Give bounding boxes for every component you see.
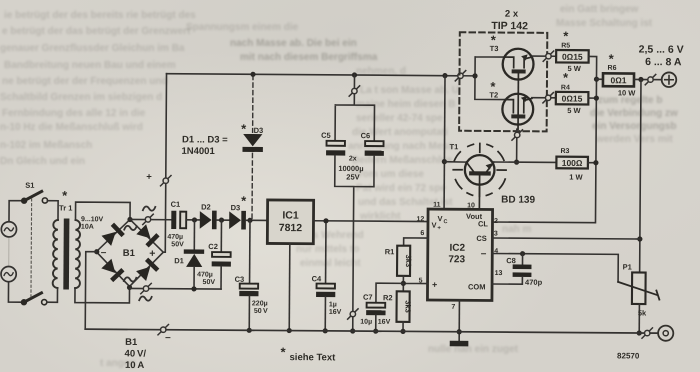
dashed module box 2x TIP142: [459, 32, 547, 131]
wire: secondary top to bridge ac1: [75, 202, 130, 220]
label diode legend text: [181, 134, 228, 157]
svg-text:+: +: [432, 280, 437, 290]
wire: pin3 CS to output column: [492, 238, 639, 239]
svg-text:C4: C4: [312, 274, 322, 283]
resistor R1: [397, 246, 413, 276]
svg-text:–: –: [101, 247, 107, 258]
ac tilde inside bridge bottom: [124, 277, 136, 281]
svg-text:2 x: 2 x: [505, 9, 519, 20]
svg-text:S1: S1: [25, 181, 34, 190]
node D2/C2/D3: [219, 217, 224, 222]
resistor R4: [556, 92, 589, 105]
wire: bridge plus up to raw+ rail: [163, 74, 166, 253]
svg-text:B1: B1: [125, 337, 138, 348]
terminal plus output: [662, 72, 677, 87]
connector at dashed box entry: [455, 71, 465, 81]
ac tilde below ac2 connector: [139, 296, 151, 300]
svg-text:T1: T1: [449, 142, 458, 151]
bleed-through text texture: [4, 10, 196, 21]
ac tilde above ac1 connector: [143, 206, 155, 210]
svg-text:3: 3: [494, 231, 498, 238]
wire: R2 to 0V rail: [402, 322, 404, 331]
svg-text:10 A: 10 A: [125, 360, 145, 371]
wire: switch to transformer primary: [47, 201, 58, 303]
transformer Tr1 secondary winding: [75, 220, 80, 288]
svg-text:CL: CL: [478, 219, 488, 228]
resistor R3: [556, 157, 588, 169]
svg-text:1 W: 1 W: [569, 173, 583, 182]
wire: C5C6 bottom to 0V rail: [334, 155, 374, 331]
AC source bottom: [1, 266, 16, 281]
svg-text:T2: T2: [489, 90, 498, 99]
node collector column: [472, 73, 477, 78]
legend diode D3 (optional): [242, 134, 263, 152]
capacitor C1: [171, 211, 186, 229]
capacitor C7: [366, 283, 403, 331]
svg-text:C: C: [443, 219, 447, 225]
svg-text:2x: 2x: [349, 155, 357, 162]
svg-text:+: +: [437, 226, 441, 232]
svg-text:100Ω: 100Ω: [562, 158, 583, 168]
wire: T1 collector riser / IC2 pin11: [443, 76, 446, 209]
diode D1: [184, 220, 205, 289]
svg-text:5 W: 5 W: [567, 106, 581, 115]
svg-text:11: 11: [433, 202, 441, 209]
connector on ac2 wire: [141, 283, 151, 293]
switch S1 pole b: [21, 293, 47, 306]
resistor R6 (shunt): [603, 73, 634, 86]
value C3 220u 50V: [252, 300, 268, 315]
svg-text:2: 2: [494, 218, 498, 225]
svg-text:2,5 ... 6 V: 2,5 ... 6 V: [639, 44, 684, 56]
transformer Tr1 core: [63, 219, 69, 290]
capacitor C2: [212, 220, 232, 289]
node T1 emitter / R3 / base tie: [514, 160, 519, 165]
svg-text:3k3: 3k3: [403, 300, 412, 313]
svg-text:R6: R6: [608, 65, 617, 72]
wire: R5 R4 R3 join column to CL: [492, 56, 596, 223]
svg-text:R4: R4: [561, 84, 570, 91]
transistor T3: [502, 49, 533, 94]
svg-text:R3: R3: [560, 148, 569, 155]
node R2 at rail: [400, 329, 405, 334]
capacitor C8: [492, 253, 532, 284]
wire: pin6 Vref to R1: [404, 238, 428, 246]
svg-text:3k3: 3k3: [404, 255, 413, 268]
svg-text:*: *: [563, 28, 569, 43]
wire: secondary bottom to bridge ac2: [75, 287, 130, 303]
ac tilde inside bridge top: [124, 226, 136, 230]
node pin4 / C8: [520, 251, 525, 256]
capacitor C6: [365, 141, 384, 156]
diode B1 arm upper-right: [136, 224, 160, 248]
svg-text:D3: D3: [231, 203, 241, 212]
wire: C1 to D2: [186, 219, 200, 221]
svg-text:50V: 50V: [171, 241, 184, 248]
diode B1 arm lower-left: [101, 258, 125, 282]
svg-text:T3: T3: [490, 44, 499, 53]
capacitor C5: [326, 141, 345, 156]
node column / R6 left: [594, 77, 599, 82]
node C1/D1/D2: [192, 217, 197, 222]
potentiometer P1: [618, 272, 660, 333]
svg-text:C7: C7: [363, 293, 373, 302]
svg-text:siehe Text: siehe Text: [289, 352, 336, 363]
wire: R6 to plus terminal: [634, 78, 662, 80]
svg-text:D2: D2: [201, 202, 211, 211]
wire: T2T3 base lead down to T1 emitter node: [516, 129, 518, 162]
svg-text:723: 723: [448, 254, 465, 265]
wire: bridge ac1 to C1: [130, 218, 171, 220]
svg-text:82570: 82570: [617, 351, 640, 360]
diode D2: [200, 211, 217, 230]
resistor R2: [396, 291, 412, 322]
node P1 at rail: [637, 330, 642, 335]
svg-text:P1: P1: [623, 262, 632, 271]
svg-text:9...10V: 9...10V: [81, 216, 104, 223]
node rail / T1 collector riser: [442, 73, 447, 78]
svg-text:13: 13: [495, 270, 503, 277]
svg-text:7812: 7812: [279, 222, 303, 234]
svg-text:*: *: [281, 345, 287, 360]
svg-text:R2: R2: [383, 293, 393, 302]
wire: D3 to IC1 input: [246, 219, 268, 221]
svg-text:C2: C2: [208, 242, 218, 251]
svg-text:0Ω15: 0Ω15: [562, 93, 583, 103]
svg-text:25V: 25V: [346, 172, 359, 181]
value C2 470u 50V: [197, 271, 215, 286]
svg-text:5k: 5k: [638, 309, 647, 318]
svg-text:D1 ... D3 =: D1 ... D3 =: [182, 134, 228, 145]
value C1 470u 50V: [167, 234, 184, 249]
svg-text:50V: 50V: [203, 279, 216, 286]
svg-text:B1: B1: [123, 248, 136, 259]
wire: IC1 ground lead: [288, 244, 291, 331]
svg-text:470µ: 470µ: [197, 271, 213, 278]
op-amp/regulator IC2 723: [427, 209, 492, 300]
svg-text:470p: 470p: [525, 278, 543, 287]
svg-text:BD 139: BD 139: [501, 195, 535, 206]
node T1 collector: [442, 159, 447, 164]
connector at 0V output: [642, 328, 652, 338]
terminal 0V output: [658, 326, 673, 341]
node C5C6 at 0V rail: [350, 328, 355, 333]
node divider / pin5: [401, 281, 406, 286]
svg-text:*: *: [62, 188, 68, 203]
node bridge minus (left corner): [94, 249, 99, 254]
connector at plus output: [645, 74, 655, 84]
wire: T3 emitter to R5: [532, 55, 556, 57]
connector on C5C6 ground lead: [348, 309, 358, 319]
AC source top: [1, 222, 16, 237]
svg-text:D3: D3: [254, 126, 264, 135]
bridge rectifier B1 outline: [96, 219, 163, 286]
value C4 1u 16V: [329, 301, 342, 316]
svg-text:Tr 1: Tr 1: [59, 203, 72, 212]
wire: IC1 output to IC2 V+: [313, 220, 427, 223]
svg-text:C6: C6: [361, 131, 371, 140]
svg-text:6 ... 8 A: 6 ... 8 A: [645, 56, 682, 68]
svg-text:10 W: 10 W: [618, 88, 636, 97]
node column / R4: [594, 95, 599, 100]
diode D3: [229, 211, 246, 230]
legend callout dashed link: [251, 75, 254, 218]
value C7 10u 16V: [360, 319, 390, 326]
svg-text:7: 7: [451, 304, 455, 311]
svg-text:V: V: [437, 214, 442, 223]
switch S1 pole a: [21, 191, 48, 204]
wire: T1 emitter node to R3: [494, 161, 556, 163]
node D3 output / C3 / optional diode: [247, 218, 252, 223]
node D1 bottom: [191, 286, 196, 291]
transistor T1: [444, 155, 494, 210]
svg-text:COM: COM: [468, 282, 486, 291]
svg-text:TIP 142: TIP 142: [491, 20, 528, 32]
svg-text:0Ω1: 0Ω1: [610, 75, 626, 85]
svg-text:10: 10: [467, 202, 475, 209]
svg-text:10µ: 10µ: [360, 319, 372, 326]
resistor R5: [556, 50, 589, 63]
node column / R3: [593, 160, 598, 165]
transformer Tr1 primary winding: [53, 220, 58, 288]
svg-text:10A: 10A: [81, 224, 94, 231]
svg-text:5 W: 5 W: [568, 64, 582, 73]
connector on C5C6 feed: [349, 86, 359, 96]
node bridge ac1 (top corner): [127, 217, 132, 222]
T1 heatsink dashed ring: [453, 143, 506, 196]
svg-text:6: 6: [420, 230, 424, 237]
svg-text:V: V: [431, 221, 436, 230]
svg-text:CS: CS: [476, 234, 486, 243]
node C4 top: [323, 218, 328, 223]
capacitor C4: [316, 221, 336, 331]
IC1 7812 regulator: [267, 200, 313, 244]
node C4 at 0V rail: [323, 328, 328, 333]
label siehe Text: [280, 345, 336, 364]
node CS join: [637, 236, 642, 241]
svg-text:16V: 16V: [329, 309, 342, 316]
svg-text:C1: C1: [171, 200, 181, 209]
svg-text:*: *: [241, 193, 247, 208]
connector on ac1 wire: [143, 214, 153, 224]
diode B1 arm upper-left: [101, 223, 125, 247]
value 2x 10000u 25V: [338, 155, 363, 181]
wire: mains left rail: [8, 201, 21, 303]
svg-text:C8: C8: [506, 256, 516, 265]
wire: C5C6 top feed: [335, 75, 375, 141]
svg-text:R1: R1: [385, 247, 395, 256]
svg-text:IC2: IC2: [449, 243, 465, 254]
transistor T2: [502, 94, 533, 130]
wire: pin4 inverting input to P1 wiper: [492, 253, 618, 281]
svg-text:470µ: 470µ: [167, 234, 183, 241]
svg-text:R5: R5: [561, 42, 570, 49]
svg-text:50 V: 50 V: [254, 308, 268, 315]
svg-text:IC1: IC1: [282, 210, 299, 222]
wire: 0V bottom rail: [85, 329, 658, 333]
svg-text:C5: C5: [321, 131, 331, 140]
wire: bridge minus to 0V rail: [85, 252, 96, 330]
svg-text:–: –: [481, 248, 487, 259]
wire: collector tie column: [475, 57, 506, 100]
connector T2 emitter: [543, 93, 553, 103]
svg-text:1N4001: 1N4001: [181, 146, 215, 157]
node rail / legend link: [250, 72, 255, 77]
wire: R3 right stub: [588, 162, 596, 164]
svg-text:C3: C3: [235, 275, 245, 284]
svg-text:220µ: 220µ: [252, 300, 268, 307]
wire: R6 left feed: [596, 78, 602, 80]
svg-text:0Ω15: 0Ω15: [562, 52, 583, 62]
node rail / C5C6: [352, 72, 357, 77]
wire: pin7 to ground: [458, 300, 460, 340]
S1 mechanical link (dashed): [30, 199, 33, 297]
node output sense: [638, 77, 643, 82]
svg-text:D1: D1: [174, 256, 184, 265]
wire: output sense column to CS and P1: [640, 80, 641, 273]
svg-text:+: +: [149, 248, 155, 260]
diode B1 arm lower-right: [136, 258, 160, 282]
connector on 0V rail: [158, 324, 168, 334]
svg-text:16V: 16V: [378, 319, 391, 326]
svg-text:1µ: 1µ: [329, 301, 337, 308]
svg-text:12: 12: [416, 216, 424, 223]
ground: [450, 341, 469, 347]
wire: R4 right stub: [588, 97, 596, 99]
node bridge ac2 (bottom corner): [127, 285, 132, 290]
connector on raw+ riser: [161, 175, 171, 185]
svg-text:+: +: [146, 172, 152, 183]
node C7 at rail: [373, 329, 378, 334]
svg-text:–: –: [165, 332, 171, 343]
node C3 at 0V rail: [247, 328, 252, 333]
wire: raw+ top rail: [167, 74, 459, 76]
connector on base lead: [512, 130, 522, 140]
node IC1 gnd at rail: [287, 328, 292, 333]
node pin7 at rail: [457, 329, 462, 334]
svg-text:40 V/: 40 V/: [125, 348, 147, 359]
wire: R1 to node and pin5: [403, 276, 427, 292]
label secondary rating 9...10V 10A: [81, 216, 104, 231]
label bridge rating B1 40V/ 10A: [124, 337, 146, 371]
capacitor C3: [239, 220, 259, 330]
connector T3 emitter: [543, 51, 553, 61]
wire: T2 emitter to R4: [532, 97, 556, 99]
wire: rail to TIP bases: [459, 75, 475, 77]
wire: D2 to D3: [217, 219, 230, 221]
wire: bridge ac2 to D1/C2 bottoms: [130, 287, 221, 290]
